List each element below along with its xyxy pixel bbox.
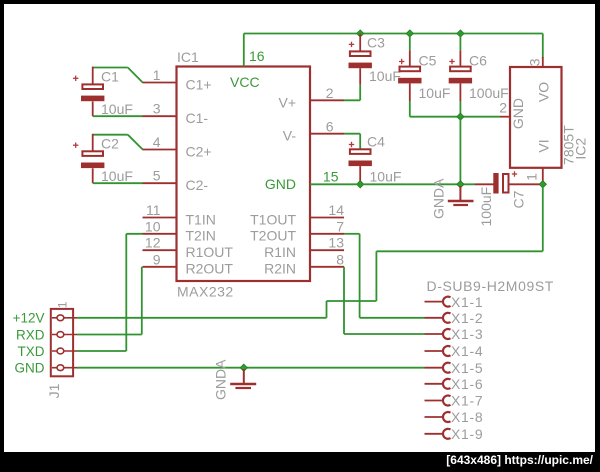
IC1 pin 8 stub xyxy=(310,266,344,268)
wire T2OUT right xyxy=(344,233,360,235)
IC1 pin name C2+ xyxy=(186,144,212,160)
capacitor C1 plus sign xyxy=(73,76,78,81)
svg-text:100uF: 100uF xyxy=(478,187,494,227)
wire T2OUT down xyxy=(359,234,361,318)
net label TXD xyxy=(18,344,45,359)
ground GNDA bottom bar 2 xyxy=(235,387,251,389)
pin label X1-8 xyxy=(451,409,483,425)
svg-text:1: 1 xyxy=(56,301,70,308)
svg-text:T1IN: T1IN xyxy=(186,212,216,228)
IC1 name label xyxy=(177,49,199,65)
capacitor C2 wire top xyxy=(93,134,128,136)
svg-text:VCC: VCC xyxy=(230,74,260,90)
IC1 pin name GND xyxy=(265,176,296,192)
wire +12V vertical mid xyxy=(375,251,377,301)
svg-text:9: 9 xyxy=(153,251,161,267)
wire T2OUT to X1-2 xyxy=(360,317,425,319)
svg-text:C1+: C1+ xyxy=(186,77,212,93)
IC1 pin name C1- xyxy=(186,110,209,126)
connector pin X1-6 lead xyxy=(425,379,451,389)
IC1 pin 2 stub xyxy=(310,99,344,101)
svg-text:X1-7: X1-7 xyxy=(451,393,483,409)
IC2 pin 1 stub xyxy=(542,168,544,185)
wire C2 diagonal to pin 4 xyxy=(128,135,143,150)
pin label 10 xyxy=(145,218,161,234)
svg-text:11: 11 xyxy=(146,202,161,218)
IC1 pin name V+ xyxy=(278,94,296,110)
connector pin X1-1 lead xyxy=(425,297,451,307)
pin label 12 xyxy=(145,235,161,251)
capacitor C6 stem top xyxy=(459,50,461,66)
IC2 value label 7805T xyxy=(561,125,577,165)
IC2 label VO xyxy=(536,82,552,102)
svg-text:2: 2 xyxy=(499,99,507,115)
pin label X1-1 xyxy=(451,294,483,310)
C3 value label xyxy=(369,68,401,84)
capacitor C2 plus sign xyxy=(73,143,78,148)
wire +12V horizontal upper xyxy=(376,250,542,252)
C6 name label xyxy=(469,53,487,69)
svg-text:+12V: +12V xyxy=(13,311,45,326)
svg-text:GNDA: GNDA xyxy=(431,178,447,219)
pin label 5 xyxy=(153,168,161,184)
connector pin X1-9 lead xyxy=(425,429,451,439)
pin label X1-3 xyxy=(451,326,483,342)
junction GNDA run xyxy=(457,181,464,188)
IC1 pin name R2IN xyxy=(264,261,296,277)
IC2 pin 3 stub xyxy=(542,57,544,67)
capacitor C1 plates xyxy=(81,84,104,101)
IC1 pin name T2OUT xyxy=(250,228,296,244)
wire C5 drop xyxy=(409,34,411,51)
IC1 pin name R1IN xyxy=(264,244,296,260)
C7 value label 100uF xyxy=(478,187,494,227)
junction C6 on VCC rail xyxy=(457,30,464,37)
capacitor C2 plates xyxy=(81,151,104,168)
junction C6 GND rail xyxy=(457,113,464,120)
capacitor C7 plus sign xyxy=(512,171,517,176)
wire R2IN down xyxy=(343,267,345,334)
capacitor C6 plates xyxy=(449,67,472,84)
svg-text:10uF: 10uF xyxy=(370,168,402,184)
svg-text:R1OUT: R1OUT xyxy=(186,244,234,260)
svg-text:5: 5 xyxy=(153,168,161,184)
GNDA bottom label xyxy=(213,359,229,400)
net label RXD xyxy=(16,327,45,342)
capacitor C3 stem top xyxy=(359,34,361,52)
svg-text:8: 8 xyxy=(336,251,344,267)
wire C3 to pin 2 horizontal xyxy=(344,99,360,101)
svg-text:T1OUT: T1OUT xyxy=(250,212,296,228)
capacitor C4 plates xyxy=(349,149,372,166)
connector pin X1-4 lead xyxy=(425,346,451,356)
svg-text:15: 15 xyxy=(323,168,339,184)
wire RXD from J1 xyxy=(77,334,142,336)
svg-text:10uF: 10uF xyxy=(101,168,133,184)
wire TXD from J1 xyxy=(77,350,126,352)
IC2 label GND xyxy=(510,98,526,129)
wire C3 to pin 2 vertical xyxy=(359,85,361,101)
svg-text:X1-9: X1-9 xyxy=(451,426,483,442)
svg-text:IC2: IC2 xyxy=(572,138,588,160)
IC1 pin 11 stub xyxy=(143,217,177,219)
svg-text:X1-1: X1-1 xyxy=(451,294,483,310)
capacitor C3 stem bottom xyxy=(359,68,361,85)
svg-text:10uF: 10uF xyxy=(419,85,451,101)
svg-text:VO: VO xyxy=(536,82,552,102)
pin label X1-7 xyxy=(451,393,483,409)
connector J1 body xyxy=(51,309,73,376)
wire RXD up to pin 9 xyxy=(141,267,143,335)
svg-text:R2IN: R2IN xyxy=(264,261,296,277)
IC2 pin label 2 xyxy=(499,99,507,115)
J1 name label xyxy=(46,383,62,398)
wire GNDA vertical xyxy=(459,117,461,185)
svg-text:IC1: IC1 xyxy=(177,49,199,65)
capacitor C5 plus sign xyxy=(399,59,404,64)
svg-text:X1-8: X1-8 xyxy=(451,409,483,425)
svg-text:7: 7 xyxy=(336,218,344,234)
IC1 pin name VCC xyxy=(230,74,260,90)
svg-text:TXD: TXD xyxy=(18,344,45,359)
svg-text:GND: GND xyxy=(265,176,296,192)
svg-text:6: 6 xyxy=(326,118,334,134)
svg-text:X1-5: X1-5 xyxy=(451,360,483,376)
voltage regulator IC2 body xyxy=(510,67,562,168)
net label GND xyxy=(15,361,45,376)
svg-text:1: 1 xyxy=(153,67,161,83)
svg-text:10uF: 10uF xyxy=(101,101,133,117)
pin label X1-9 xyxy=(451,426,483,442)
pin label X1-5 xyxy=(451,360,483,376)
svg-text:GND: GND xyxy=(510,98,526,129)
pin label 3 xyxy=(153,101,161,117)
C6 value label xyxy=(469,85,509,101)
IC1 pin name T1OUT xyxy=(250,212,296,228)
IC2 pin 2 stub xyxy=(500,116,510,118)
svg-text:3: 3 xyxy=(153,101,161,117)
wire GND J1 to X1-5 xyxy=(77,367,425,369)
svg-text:C1: C1 xyxy=(101,69,119,85)
connector J1 pin 3 circle xyxy=(57,348,64,354)
pin label X1-6 xyxy=(451,376,483,392)
svg-text:C6: C6 xyxy=(469,53,487,69)
C1 value label xyxy=(101,101,133,117)
svg-text:C1-: C1- xyxy=(186,110,209,126)
junction C5 on VCC rail xyxy=(406,30,413,37)
J1 pin 1 marker xyxy=(56,301,70,308)
wire R2IN to X1-3 xyxy=(344,333,425,335)
pin label 6 xyxy=(326,118,334,134)
svg-text:C3: C3 xyxy=(367,35,385,51)
C2 name label xyxy=(101,136,119,152)
svg-text:V-: V- xyxy=(283,128,297,144)
svg-text:1: 1 xyxy=(524,173,540,181)
connector pin X1-5 lead xyxy=(425,363,451,373)
ground GNDA right bar 2 xyxy=(453,204,468,206)
wire C6 bottom drop xyxy=(459,101,461,117)
wire VCC riser from IC1 pin 16 xyxy=(243,34,245,67)
IC1 pin 3 stub xyxy=(142,115,176,117)
ground GNDA right stem xyxy=(459,186,461,200)
connector pin X1-2 lead xyxy=(425,313,451,323)
pin label 1 xyxy=(153,67,161,83)
IC1 pin name V- xyxy=(283,128,297,144)
svg-text:T2OUT: T2OUT xyxy=(250,228,296,244)
svg-text:X1-6: X1-6 xyxy=(451,376,483,392)
junction GNDA bottom xyxy=(240,364,247,371)
connector pin X1-7 lead xyxy=(425,396,451,406)
GNDA right label xyxy=(431,178,447,219)
svg-text:X1-4: X1-4 xyxy=(451,343,483,359)
connector J1 pin 2 lead xyxy=(52,334,77,336)
svg-text:C2+: C2+ xyxy=(186,144,212,160)
pin label X1-2 xyxy=(451,310,483,326)
svg-text:C2: C2 xyxy=(101,136,119,152)
IC1 pin 14 stub xyxy=(310,217,344,219)
wire VCC top rail xyxy=(244,33,543,35)
capacitor C7 filled plate xyxy=(493,173,498,194)
capacitor C1 stem bottom xyxy=(92,101,94,116)
pin label 15 xyxy=(323,168,339,184)
IC1 pin 1 stub xyxy=(142,82,176,84)
IC2 label VI xyxy=(536,139,552,152)
capacitor C7 outline plate xyxy=(503,174,509,193)
svg-text:12: 12 xyxy=(145,235,161,251)
svg-text:C7: C7 xyxy=(511,190,527,208)
svg-text:J1: J1 xyxy=(46,383,62,398)
capacitor C1 wire top xyxy=(93,67,128,69)
svg-text:2: 2 xyxy=(326,85,334,101)
capacitor C3 plus sign xyxy=(349,42,354,47)
svg-text:X1-3: X1-3 xyxy=(451,326,483,342)
connector J1 pin 1 lead xyxy=(52,317,77,319)
wire GND rail under C5 C6 xyxy=(410,116,500,118)
svg-text:VI: VI xyxy=(536,139,552,152)
net label +12V xyxy=(13,311,45,326)
capacitor C7 left pin xyxy=(475,183,494,185)
svg-text:C2-: C2- xyxy=(186,177,209,193)
pin label 8 xyxy=(336,251,344,267)
wire C5 bottom drop xyxy=(409,101,411,117)
IC1 pin 12 stub xyxy=(143,249,177,251)
wire C4 top vertical xyxy=(359,134,361,150)
ground GNDA bottom stem xyxy=(243,369,245,383)
capacitor C5 stem bottom xyxy=(409,83,411,101)
IC1 value label MAX232 xyxy=(177,284,234,300)
svg-text:C4: C4 xyxy=(367,134,385,150)
capacitor C3 plates xyxy=(349,51,372,68)
svg-text:T2IN: T2IN xyxy=(186,228,216,244)
junction C4 on GND run xyxy=(357,181,364,188)
wire pin 6 to C4 xyxy=(344,133,360,135)
pin label 4 xyxy=(153,134,161,150)
IC2 pin label 3 xyxy=(527,58,543,66)
IC2 name label xyxy=(572,138,588,160)
IC1 pin 5 stub xyxy=(142,182,176,184)
capacitor C4 plus sign xyxy=(349,142,354,147)
C3 name label xyxy=(367,35,385,51)
svg-text:R1IN: R1IN xyxy=(264,244,296,260)
ground GNDA right bar 1 xyxy=(448,200,474,202)
connector J1 pin 3 lead xyxy=(52,350,77,352)
connector X1 name label D-SUB9-H2M09ST xyxy=(427,278,554,294)
IC1 pin 13 stub xyxy=(310,249,344,251)
pin label X1-4 xyxy=(451,343,483,359)
svg-text:13: 13 xyxy=(328,235,344,251)
IC1 pin name R1OUT xyxy=(186,244,234,260)
pin label 14 xyxy=(328,202,344,218)
wire +12V riser xyxy=(542,184,544,251)
svg-text:10: 10 xyxy=(145,218,161,234)
svg-text:GND: GND xyxy=(15,361,45,376)
IC2 pin label 1 xyxy=(524,173,540,181)
capacitor C5 plates xyxy=(398,67,421,84)
IC1 pin name C1+ xyxy=(186,77,212,93)
connector J1 pin 1 circle xyxy=(57,315,64,321)
wire C1 bottom to pin 3 xyxy=(93,115,143,117)
IC1 pin 7 stub xyxy=(310,233,344,235)
svg-text:3: 3 xyxy=(527,58,543,66)
svg-text:GNDA: GNDA xyxy=(213,359,229,400)
svg-text:14: 14 xyxy=(328,202,344,218)
capacitor C6 stem bottom xyxy=(459,83,461,101)
connector pin X1-3 lead xyxy=(425,329,451,339)
C7 name label xyxy=(511,190,527,208)
IC1 pin name C2- xyxy=(186,177,209,193)
C5 name label xyxy=(419,53,437,69)
connector J1 pin 4 lead xyxy=(52,367,77,369)
pin label 11 xyxy=(146,202,161,218)
wire C7 to VI junction xyxy=(509,183,543,185)
capacitor C6 plus sign xyxy=(449,59,454,64)
svg-text:V+: V+ xyxy=(278,94,296,110)
capacitor C1 stem top xyxy=(92,67,94,85)
wire TXD up to pin 10 xyxy=(125,234,127,351)
capacitor C4 stem bottom xyxy=(359,166,361,184)
IC1 pin 10 stub xyxy=(143,233,177,235)
svg-text:C5: C5 xyxy=(419,53,437,69)
pin label 2 xyxy=(326,85,334,101)
connector J1 pin 2 circle xyxy=(57,332,64,338)
junction VI C7 +12V xyxy=(539,181,546,188)
IC1 pin 6 stub xyxy=(310,133,344,135)
C1 name label xyxy=(101,69,119,85)
wire GND run pin15 to C7 xyxy=(310,183,475,185)
pin label 9 xyxy=(153,251,161,267)
op-amp U1 : IC1 MAX232 body xyxy=(177,67,311,282)
connector pin X1-8 lead xyxy=(425,412,451,422)
IC1 pin name R2OUT xyxy=(186,261,234,277)
wire C1 diagonal to pin 1 xyxy=(128,68,143,83)
pin label 7 xyxy=(336,218,344,234)
C4 value label xyxy=(370,168,402,184)
pin label 16 xyxy=(249,48,265,64)
C4 name label xyxy=(367,134,385,150)
capacitor C5 stem top xyxy=(409,50,411,66)
capacitor C2 stem bottom xyxy=(92,168,94,183)
IC1 pin 4 stub xyxy=(142,149,176,151)
svg-text:R2OUT: R2OUT xyxy=(186,261,234,277)
connector J1 pin 4 circle xyxy=(57,365,64,371)
wire C6 drop xyxy=(459,34,461,51)
wire TXD to pin 10 stub xyxy=(126,233,142,235)
watermark bar xyxy=(0,452,600,472)
capacitor C2 stem top xyxy=(92,134,94,152)
svg-text:D-SUB9-H2M09ST: D-SUB9-H2M09ST xyxy=(427,278,554,294)
wire C2 bottom to pin 5 xyxy=(93,182,143,184)
svg-text:X1-2: X1-2 xyxy=(451,310,483,326)
svg-text:RXD: RXD xyxy=(16,327,45,342)
wire +12V jog horizontal xyxy=(327,300,377,302)
IC1 pin name T1IN xyxy=(186,212,216,228)
svg-text:4: 4 xyxy=(153,134,161,150)
wire +12V to J1 xyxy=(77,317,327,319)
pin label 13 xyxy=(328,235,344,251)
junction C3 on VCC rail xyxy=(357,30,364,37)
wire VCC drop to IC2 pin 3 xyxy=(542,34,544,59)
svg-text:MAX232: MAX232 xyxy=(177,284,234,300)
C2 value label xyxy=(101,168,133,184)
IC1 pin 9 stub xyxy=(143,266,177,268)
svg-text:16: 16 xyxy=(249,48,265,64)
ground GNDA bottom bar 1 xyxy=(230,383,256,385)
IC1 pin name T2IN xyxy=(186,228,216,244)
wire +12V jog vertical xyxy=(326,301,328,318)
svg-text:10uF: 10uF xyxy=(369,68,401,84)
C5 value label xyxy=(419,85,451,101)
